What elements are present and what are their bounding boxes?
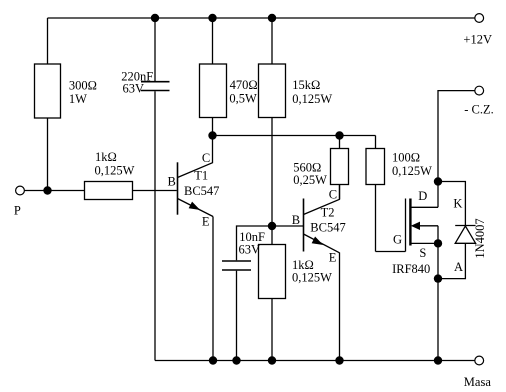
node dot P junction <box>43 186 51 194</box>
diode D1 1N4007 cathode bar <box>455 225 475 227</box>
MOSFET U1 channel bar <box>409 199 411 246</box>
MOSFET U1 body stub <box>418 225 438 227</box>
terminal P circle <box>16 186 25 195</box>
capacitor 10nF bottom lead <box>236 271 238 361</box>
resistor 560 0,25W body <box>331 149 349 185</box>
resistor 470 bottom lead <box>212 118 214 136</box>
wire node to 10nF cap <box>237 226 273 260</box>
resistor 15k top lead <box>271 18 273 64</box>
node dot ground source <box>434 356 442 364</box>
node dot 560 top <box>335 131 343 139</box>
wire 300ohm top lead <box>47 18 49 64</box>
svg-text:470Ω: 470Ω <box>230 78 258 92</box>
svg-text:0,125W: 0,125W <box>392 164 432 178</box>
wire collector bus <box>213 135 376 137</box>
node dot rail 15k <box>268 14 276 22</box>
terminal -C.Z. circle <box>475 86 484 95</box>
resistor 1k vertical bottom lead <box>271 299 273 361</box>
transistor T2 emitter <box>304 234 340 253</box>
svg-text:C: C <box>329 187 337 201</box>
svg-text:15kΩ: 15kΩ <box>292 78 320 92</box>
svg-text:B: B <box>168 175 176 189</box>
wire drain to node <box>437 182 439 208</box>
svg-text:S: S <box>419 246 426 260</box>
node dot ground 1k <box>268 356 276 364</box>
node dot ground T1 emitter <box>209 356 217 364</box>
ground rail Masa wire <box>155 360 475 362</box>
diode D1 1N4007 triangle <box>455 226 475 243</box>
node dot T2 base <box>268 222 276 230</box>
svg-text:T2: T2 <box>321 206 335 220</box>
svg-text:T1: T1 <box>194 169 208 183</box>
wire 300ohm bottom lead <box>47 118 49 191</box>
svg-text:100Ω: 100Ω <box>392 150 420 164</box>
transistor T1 emitter <box>178 199 214 217</box>
transistor T1 emitter arrow <box>189 203 198 210</box>
MOSFET U1 source stub <box>411 242 438 244</box>
resistor 470 0,5W body <box>200 64 227 118</box>
transistor T2 base bar <box>303 199 305 252</box>
svg-text:- C.Z.: - C.Z. <box>464 103 494 117</box>
svg-text:63V: 63V <box>123 81 145 95</box>
wire base T1 <box>133 190 177 192</box>
resistor 560 bottom lead to T2 collector <box>339 185 341 200</box>
capacitor 10nF plate top <box>222 260 251 262</box>
svg-text:+12V: +12V <box>463 33 492 47</box>
svg-text:A: A <box>454 260 463 274</box>
wire source column down <box>437 226 439 361</box>
node dot source <box>434 239 442 247</box>
node dot rail 220nF <box>151 14 159 22</box>
node dot ground 10nF <box>232 356 240 364</box>
MOSFET U1 body arrow <box>412 222 420 229</box>
svg-text:E: E <box>329 251 337 265</box>
capacitor C 220nF bottom lead <box>154 91 156 360</box>
diode D1 1N4007 cathode wire <box>438 182 465 226</box>
resistor 15k 0,125W body <box>259 64 286 118</box>
MOSFET U1 gate bar <box>405 199 407 252</box>
diode D1 1N4007 anode wire <box>438 243 465 278</box>
svg-text:Masa: Masa <box>464 375 492 389</box>
svg-text:B: B <box>292 213 300 227</box>
wire gate <box>376 251 406 253</box>
svg-text:G: G <box>393 233 402 247</box>
node dot ground T2 emitter <box>335 356 343 364</box>
transistor T1 collector <box>178 136 213 178</box>
transistor T2 collector <box>304 185 340 215</box>
svg-text:K: K <box>453 196 462 210</box>
node dot diode anode <box>434 274 442 282</box>
terminal Masa circle <box>475 356 484 365</box>
svg-text:E: E <box>202 215 210 229</box>
resistor 100 bottom lead <box>375 185 377 252</box>
wire T2 base <box>272 225 303 227</box>
svg-text:P: P <box>14 204 21 218</box>
svg-text:63V: 63V <box>239 243 261 257</box>
svg-text:300Ω: 300Ω <box>69 78 97 92</box>
svg-text:0,5W: 0,5W <box>229 92 257 106</box>
resistor 100 top lead <box>375 136 377 149</box>
svg-text:0,25W: 0,25W <box>293 173 327 187</box>
svg-text:0,125W: 0,125W <box>95 163 135 177</box>
svg-text:1N4007: 1N4007 <box>473 218 487 258</box>
capacitor 220nF plate bottom <box>141 90 170 92</box>
resistor 1k 0,125W vertical body <box>259 245 286 299</box>
wire T2 emitter down <box>339 253 341 361</box>
svg-text:D: D <box>418 189 427 203</box>
resistor 1k 0,125W horizontal body <box>85 182 133 200</box>
transistor T1 base bar <box>177 162 179 214</box>
svg-text:0,125W: 0,125W <box>292 270 332 284</box>
resistor R1 300ohm 1W body <box>35 64 61 118</box>
wire T1 emitter down <box>212 217 214 361</box>
svg-text:BC547: BC547 <box>310 221 345 235</box>
node dot rail 470 <box>208 14 216 22</box>
resistor 470 top lead <box>212 18 214 64</box>
svg-text:0,125W: 0,125W <box>292 92 332 106</box>
MOSFET U1 drain stub <box>411 206 438 208</box>
svg-text:IRF840: IRF840 <box>392 262 430 276</box>
terminal +12V circle <box>475 14 484 23</box>
wire -C.Z. branch <box>438 91 475 182</box>
capacitor C 220nF top lead <box>154 18 156 81</box>
transistor T2 emitter arrow <box>312 237 321 244</box>
svg-text:1W: 1W <box>69 92 87 106</box>
resistor 560 top lead <box>339 136 341 149</box>
+12V rail wire <box>48 17 475 19</box>
resistor 1k vertical top lead <box>271 226 273 245</box>
svg-text:C: C <box>202 151 210 165</box>
capacitor 220nF plate top <box>141 81 170 83</box>
svg-text:560Ω: 560Ω <box>293 160 321 174</box>
wire P input <box>25 190 85 192</box>
node dot T1 collector <box>208 131 216 139</box>
resistor 100 0,125W body <box>366 149 385 185</box>
svg-text:1kΩ: 1kΩ <box>95 150 117 164</box>
svg-text:BC547: BC547 <box>184 184 219 198</box>
node dot drain <box>434 177 442 185</box>
resistor 15k bottom lead to T2 base node <box>271 118 273 227</box>
capacitor 10nF plate bottom <box>222 269 251 271</box>
